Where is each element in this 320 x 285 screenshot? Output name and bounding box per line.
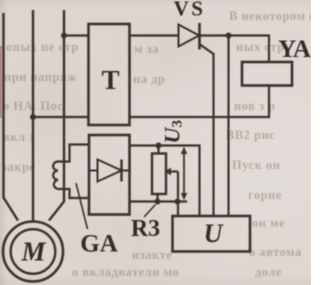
- svg-text:3: 3: [170, 120, 186, 128]
- svg-text:U: U: [160, 127, 185, 144]
- svg-text:VS: VS: [174, 0, 206, 20]
- svg-text:R3: R3: [131, 216, 160, 242]
- svg-text:M: M: [20, 237, 46, 267]
- svg-text:T: T: [101, 65, 119, 95]
- svg-text:GA: GA: [80, 231, 118, 258]
- svg-text:YA: YA: [278, 36, 311, 63]
- svg-text:U: U: [204, 219, 224, 248]
